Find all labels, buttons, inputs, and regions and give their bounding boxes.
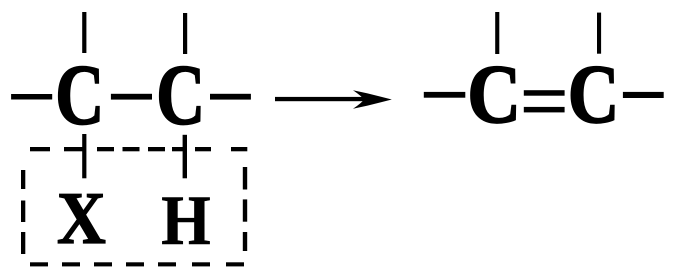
bond tick below C2 bbox=[183, 135, 187, 179]
bond tick above C2 bbox=[183, 13, 187, 54]
svg-text:C: C bbox=[156, 47, 205, 142]
dashed box around X and H bbox=[21, 147, 247, 266]
bond tick above C4 bbox=[597, 13, 601, 54]
double bond C3=C4 upper bar bbox=[524, 90, 565, 96]
bond dash right of C2 bbox=[210, 94, 251, 100]
double bond C3=C4 lower bar bbox=[524, 107, 565, 113]
bond tick above C1 bbox=[82, 12, 86, 53]
svg-text:C: C bbox=[467, 48, 521, 141]
bond tick below C1 bbox=[82, 134, 86, 178]
bond dash left of C1 bbox=[11, 94, 52, 100]
reaction arrow bbox=[275, 90, 392, 109]
bond tick above C3 bbox=[495, 12, 499, 54]
svg-text:X: X bbox=[57, 178, 106, 259]
bond dash C1-C2 bbox=[111, 94, 152, 100]
svg-text:C: C bbox=[568, 46, 620, 140]
bond dash left of C3 bbox=[424, 92, 466, 98]
bond dash right of C4 bbox=[623, 92, 664, 98]
svg-text:C: C bbox=[55, 47, 104, 142]
svg-text:H: H bbox=[161, 181, 210, 260]
